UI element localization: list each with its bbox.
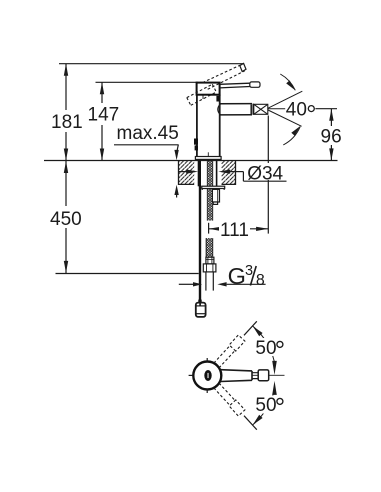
shank right wall bbox=[216, 161, 218, 187]
center ticks bbox=[189, 374, 193, 376]
40 degree rays from aerator bbox=[268, 91, 302, 126]
G3/8 tube below nut bbox=[205, 272, 207, 291]
arrow 147 top up bbox=[100, 82, 104, 94]
svg-text:111: 111 bbox=[220, 220, 249, 241]
top view circle bbox=[193, 362, 221, 390]
spout bbox=[220, 104, 254, 115]
lever knob bbox=[250, 82, 260, 87]
countertop right hatched block bbox=[222, 161, 236, 185]
bottom reference line (450 level) bbox=[56, 273, 199, 275]
arrow 147 bottom down bbox=[100, 149, 104, 161]
G 3/8 dimension arrows bbox=[179, 283, 194, 285]
top view knob bbox=[258, 370, 269, 381]
aerator drop line for 111 bbox=[267, 116, 269, 234]
96 arrows bbox=[329, 109, 333, 121]
nut lower step bbox=[213, 202, 217, 204]
diameter 34 leader step bbox=[242, 172, 244, 182]
svg-text:40: 40 bbox=[286, 100, 307, 121]
shank left wall (thick) bbox=[198, 161, 201, 187]
mounting washer under counter bbox=[202, 186, 225, 188]
147 reference line bbox=[96, 81, 199, 83]
G3/8 collar bbox=[206, 257, 214, 264]
inner hub bbox=[204, 370, 211, 381]
svg-text:96: 96 bbox=[321, 126, 342, 147]
countertop left hatched block bbox=[179, 161, 195, 185]
svg-text:50: 50 bbox=[255, 395, 276, 416]
top reference line (181 level) bbox=[59, 63, 244, 65]
faucet: shank threaded hose column through counter bbox=[208, 161, 213, 221]
111 center extension tick bbox=[208, 223, 210, 234]
max.45 arrow down at counter top bbox=[174, 150, 178, 160]
handle base rect bbox=[197, 83, 220, 95]
svg-text:Ø34: Ø34 bbox=[247, 163, 283, 184]
countertop top line bbox=[44, 160, 338, 162]
arrow 181 bottom down bbox=[64, 149, 68, 161]
diameter 34 label bbox=[245, 163, 287, 180]
upper 50 arc bbox=[253, 326, 275, 362]
diameter 34 arrows bbox=[179, 171, 187, 173]
lower 50 extension line bbox=[244, 416, 257, 430]
arrow 450 bottom down bbox=[64, 261, 68, 273]
upper 50 extension line bbox=[244, 321, 257, 335]
max.45 underline bbox=[114, 144, 179, 146]
96 dimension horizontal ray bbox=[315, 108, 337, 110]
40 degree upper arc bbox=[280, 74, 295, 90]
weight connector bbox=[198, 300, 201, 304]
neck ticks under handle base bbox=[202, 95, 204, 99]
svg-text:450: 450 bbox=[50, 209, 82, 230]
lower 50 label bbox=[254, 396, 290, 414]
arrow 450 top up (below counter line) bbox=[64, 161, 68, 173]
spout mount tick bbox=[216, 96, 219, 102]
max.45 leader to counter top bbox=[177, 145, 179, 153]
dashed raised lever bbox=[203, 64, 245, 89]
black tab on left body wall bbox=[194, 139, 198, 145]
111 dimension line bbox=[209, 228, 269, 230]
faucet body walls bbox=[196, 95, 198, 157]
svg-text:8: 8 bbox=[256, 272, 265, 289]
top view lever rod bbox=[221, 370, 252, 382]
dashed lever up 50 bbox=[214, 335, 245, 368]
96 dimension vertical line bbox=[330, 109, 332, 161]
svg-text:181: 181 bbox=[51, 112, 83, 133]
solid lever rod bbox=[220, 83, 250, 88]
flange center tick bbox=[207, 152, 209, 156]
arrow 181 top up bbox=[64, 64, 68, 76]
dimension line 181/450 vertical bbox=[65, 64, 67, 274]
svg-text:50: 50 bbox=[255, 338, 276, 359]
G3/8 nut bbox=[203, 264, 216, 272]
faucet base flange bbox=[195, 157, 221, 160]
dashed lever down 50 bbox=[214, 383, 245, 416]
centerline through neck bbox=[253, 374, 259, 376]
svg-text:3: 3 bbox=[245, 263, 253, 279]
aerator with X bbox=[254, 104, 268, 114]
upper 50 label bbox=[254, 338, 290, 356]
hose 2 (dark line) down to weight bbox=[199, 186, 201, 302]
weight at hose end bbox=[196, 303, 206, 317]
svg-text:G: G bbox=[228, 263, 246, 289]
centerline right bbox=[269, 374, 285, 376]
lower braided hose segment bbox=[206, 238, 212, 257]
max.45 arrow up at counter bottom bbox=[174, 185, 178, 195]
spout root fillet bbox=[218, 104, 221, 115]
dimension line 147 vertical bbox=[101, 82, 103, 160]
max.45 lower arrow shaft bbox=[176, 193, 178, 198]
lower 50 arc bbox=[253, 390, 275, 425]
white gaps for dim texts bbox=[48, 110, 82, 132]
raised lever tip bbox=[240, 63, 246, 71]
dashed rotated escutcheon bbox=[187, 84, 217, 105]
40 degree lower arc bbox=[283, 127, 300, 145]
svg-text:147: 147 bbox=[88, 105, 120, 126]
svg-text:max.45: max.45 bbox=[117, 123, 179, 144]
mounting nut bbox=[212, 189, 219, 202]
